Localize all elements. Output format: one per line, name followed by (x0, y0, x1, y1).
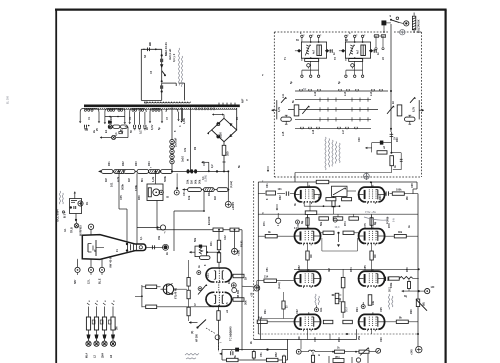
svg-text:PL81: PL81 (240, 240, 244, 247)
svg-text:25k: 25k (186, 179, 190, 184)
svg-text:R62: R62 (279, 195, 282, 200)
svg-text:C31: C31 (183, 191, 186, 196)
svg-text:101: 101 (278, 188, 283, 191)
svg-text:HF 380: HF 380 (196, 333, 199, 342)
svg-text:2x50uF: 2x50uF (174, 137, 178, 147)
svg-text:R52: R52 (275, 352, 278, 357)
svg-text:500k: 500k (120, 184, 124, 190)
svg-text:0,5: 0,5 (121, 129, 124, 133)
svg-text:214: 214 (264, 276, 269, 279)
svg-text:10k: 10k (339, 297, 342, 302)
svg-text:06,4: 06,4 (346, 307, 349, 312)
svg-text:+280V: +280V (231, 202, 235, 210)
svg-text:(1,5M): (1,5M) (204, 175, 207, 182)
svg-text:R99: R99 (338, 337, 341, 342)
svg-text:R71: R71 (263, 221, 266, 226)
svg-text:2n: 2n (146, 127, 149, 130)
svg-text:1M: 1M (310, 255, 313, 258)
svg-text:R66: R66 (379, 195, 382, 200)
svg-text:30k: 30k (244, 300, 248, 305)
svg-text:R22: R22 (122, 161, 125, 166)
svg-text:R23: R23 (135, 161, 138, 166)
svg-text:C35: C35 (120, 195, 123, 200)
svg-text:50k: 50k (194, 237, 197, 242)
svg-text:6,3V: 6,3V (150, 124, 154, 130)
svg-text:R86: R86 (406, 267, 409, 272)
svg-text:101: 101 (110, 182, 114, 187)
svg-text:M: M (167, 196, 169, 199)
svg-text:4x0,1 uF: 4x0,1 uF (168, 49, 172, 60)
svg-text:C75: C75 (364, 223, 367, 228)
svg-text:5p: 5p (338, 81, 341, 84)
svg-text:B250: B250 (220, 132, 223, 138)
svg-text:R36: R36 (138, 195, 141, 200)
svg-text:Np: Np (374, 221, 377, 225)
svg-text:9 A: 9 A (393, 218, 396, 222)
svg-text:6TL48 R2: 6TL48 R2 (175, 287, 178, 299)
svg-text:(F): (F) (191, 331, 194, 334)
svg-text:500k: 500k (163, 176, 167, 182)
svg-text:EL 300: EL 300 (7, 95, 10, 104)
svg-text:ISCL 8/W4: ISCL 8/W4 (56, 209, 60, 222)
svg-text:PO 86: PO 86 (386, 216, 390, 224)
svg-text:4u7: 4u7 (356, 49, 359, 54)
svg-text:2n: 2n (166, 252, 169, 255)
svg-text:40: 40 (85, 128, 89, 131)
svg-text:5p: 5p (158, 127, 161, 130)
svg-text:ZM4: ZM4 (102, 352, 105, 358)
svg-text:C95: C95 (380, 307, 383, 312)
svg-text:C42: C42 (224, 235, 227, 240)
svg-text:m: m (318, 354, 320, 357)
svg-text:L17: L17 (342, 129, 345, 134)
svg-text:C51: C51 (260, 352, 263, 357)
svg-text:1k: 1k (244, 277, 248, 280)
svg-text:+280: +280 (237, 249, 241, 256)
svg-text:R76: R76 (388, 223, 391, 228)
svg-text:L13: L13 (344, 91, 347, 96)
svg-text:R82: R82 (298, 265, 301, 270)
svg-text:C65: C65 (358, 195, 361, 200)
svg-text:R45: R45 (228, 279, 231, 284)
svg-text:L16: L16 (312, 129, 315, 134)
svg-text:TC 6(M)8/45: TC 6(M)8/45 (229, 326, 233, 341)
svg-text:L11: L11 (282, 93, 285, 98)
svg-text:6,3V: 6,3V (278, 107, 281, 112)
svg-text:E1: E1 (104, 129, 108, 133)
svg-text:AW 43-88: AW 43-88 (109, 256, 113, 268)
svg-text:100k: 100k (390, 282, 393, 288)
svg-text:C85: C85 (364, 265, 367, 270)
svg-text:(4 par): (4 par) (230, 181, 233, 188)
svg-text:0,1: 0,1 (140, 236, 143, 240)
svg-text:0,1: 0,1 (139, 130, 143, 134)
svg-text:15k: 15k (158, 235, 161, 240)
svg-text:R84: R84 (350, 267, 353, 272)
svg-text:R91: R91 (264, 309, 267, 314)
svg-text:C92: C92 (296, 309, 299, 314)
svg-text:5p: 5p (290, 81, 293, 84)
svg-text:R24: R24 (148, 161, 151, 166)
svg-text:+245: +245 (411, 349, 414, 355)
svg-text:Np: Np (301, 220, 304, 224)
svg-text:+25: +25 (251, 292, 254, 297)
svg-text:ECL80: ECL80 (207, 216, 211, 225)
svg-text:50k: 50k (320, 221, 323, 226)
svg-text:C44: C44 (207, 273, 210, 278)
svg-text:1M: 1M (190, 180, 194, 184)
svg-text:C61: C61 (266, 183, 269, 188)
svg-text:2M: 2M (406, 197, 409, 200)
svg-text:25k: 25k (358, 335, 361, 340)
svg-text:0,1 y 2: 0,1 y 2 (172, 53, 176, 62)
svg-text:MULTAVOX: MULTAVOX (418, 19, 421, 33)
svg-text:1M: 1M (213, 196, 217, 200)
svg-text:C81: C81 (266, 267, 269, 272)
svg-text:4,7k: 4,7k (116, 176, 120, 182)
svg-text:10k: 10k (372, 300, 375, 305)
svg-text:4u7: 4u7 (312, 49, 315, 54)
svg-text:MF: MF (241, 99, 245, 103)
svg-text:R32: R32 (208, 191, 211, 196)
svg-text:R96: R96 (410, 309, 413, 314)
svg-text:C12: C12 (203, 161, 206, 166)
svg-text:(M): (M) (423, 302, 426, 306)
svg-text:10,4: 10,4 (335, 226, 340, 229)
svg-text:R41: R41 (210, 241, 213, 246)
svg-text:R64: R64 (318, 195, 321, 200)
svg-text:L12: L12 (314, 91, 317, 96)
svg-text:C99: C99 (380, 337, 383, 342)
svg-text:C68: C68 (411, 183, 414, 188)
svg-text:TR.B: TR.B (71, 227, 74, 233)
svg-text:C98: C98 (314, 337, 317, 342)
svg-text:1,2k: 1,2k (151, 176, 155, 182)
svg-text:10n: 10n (320, 307, 323, 312)
svg-text:R74: R74 (344, 221, 347, 226)
svg-text:350: 350 (226, 151, 230, 156)
svg-text:12 L: 12 L (88, 279, 91, 284)
svg-text:(1um): (1um) (278, 282, 281, 289)
svg-text:6B 300: 6B 300 (237, 289, 240, 298)
svg-text:6,3V: 6,3V (413, 107, 416, 112)
svg-text:SP.f: SP.f (74, 279, 77, 284)
svg-text:L15: L15 (282, 131, 285, 136)
svg-text:R20: R20 (396, 137, 399, 142)
svg-text:30k: 30k (398, 231, 403, 234)
svg-text:0,1: 0,1 (114, 132, 118, 136)
svg-text:100k: 100k (396, 189, 402, 192)
svg-text:4k7: 4k7 (328, 267, 331, 272)
svg-text:BL.E: BL.E (99, 278, 102, 284)
svg-text:7,5v +5v: 7,5v +5v (365, 210, 376, 214)
svg-text:0,5: 0,5 (226, 302, 229, 306)
svg-text:3x10: 3x10 (181, 156, 185, 162)
svg-text:3M: 3M (116, 327, 119, 330)
svg-text:1M: 1M (374, 255, 377, 258)
svg-text:47k: 47k (184, 147, 187, 152)
svg-text:HD: HD (148, 42, 152, 46)
svg-text:C72: C72 (297, 223, 300, 228)
svg-text:0,2: 0,2 (211, 164, 214, 168)
svg-text:WVRF953: WVRF953 (81, 225, 83, 236)
svg-text:R94: R94 (356, 307, 359, 312)
svg-text:50k: 50k (194, 179, 198, 184)
svg-text:M1: M1 (140, 178, 144, 182)
svg-text:1M: 1M (298, 337, 301, 340)
svg-text:ML4: ML4 (86, 352, 89, 358)
svg-text:38 2: 38 2 (389, 287, 392, 292)
svg-text:L14: L14 (370, 91, 373, 96)
svg-text:R21: R21 (108, 161, 111, 166)
svg-text:52: 52 (303, 87, 307, 91)
svg-text:C20: C20 (358, 137, 361, 142)
svg-text:10k: 10k (187, 195, 191, 200)
svg-text:C2: C2 (144, 101, 148, 105)
svg-text:30k: 30k (198, 179, 202, 184)
svg-text:1,00x: 1,00x (183, 117, 186, 124)
